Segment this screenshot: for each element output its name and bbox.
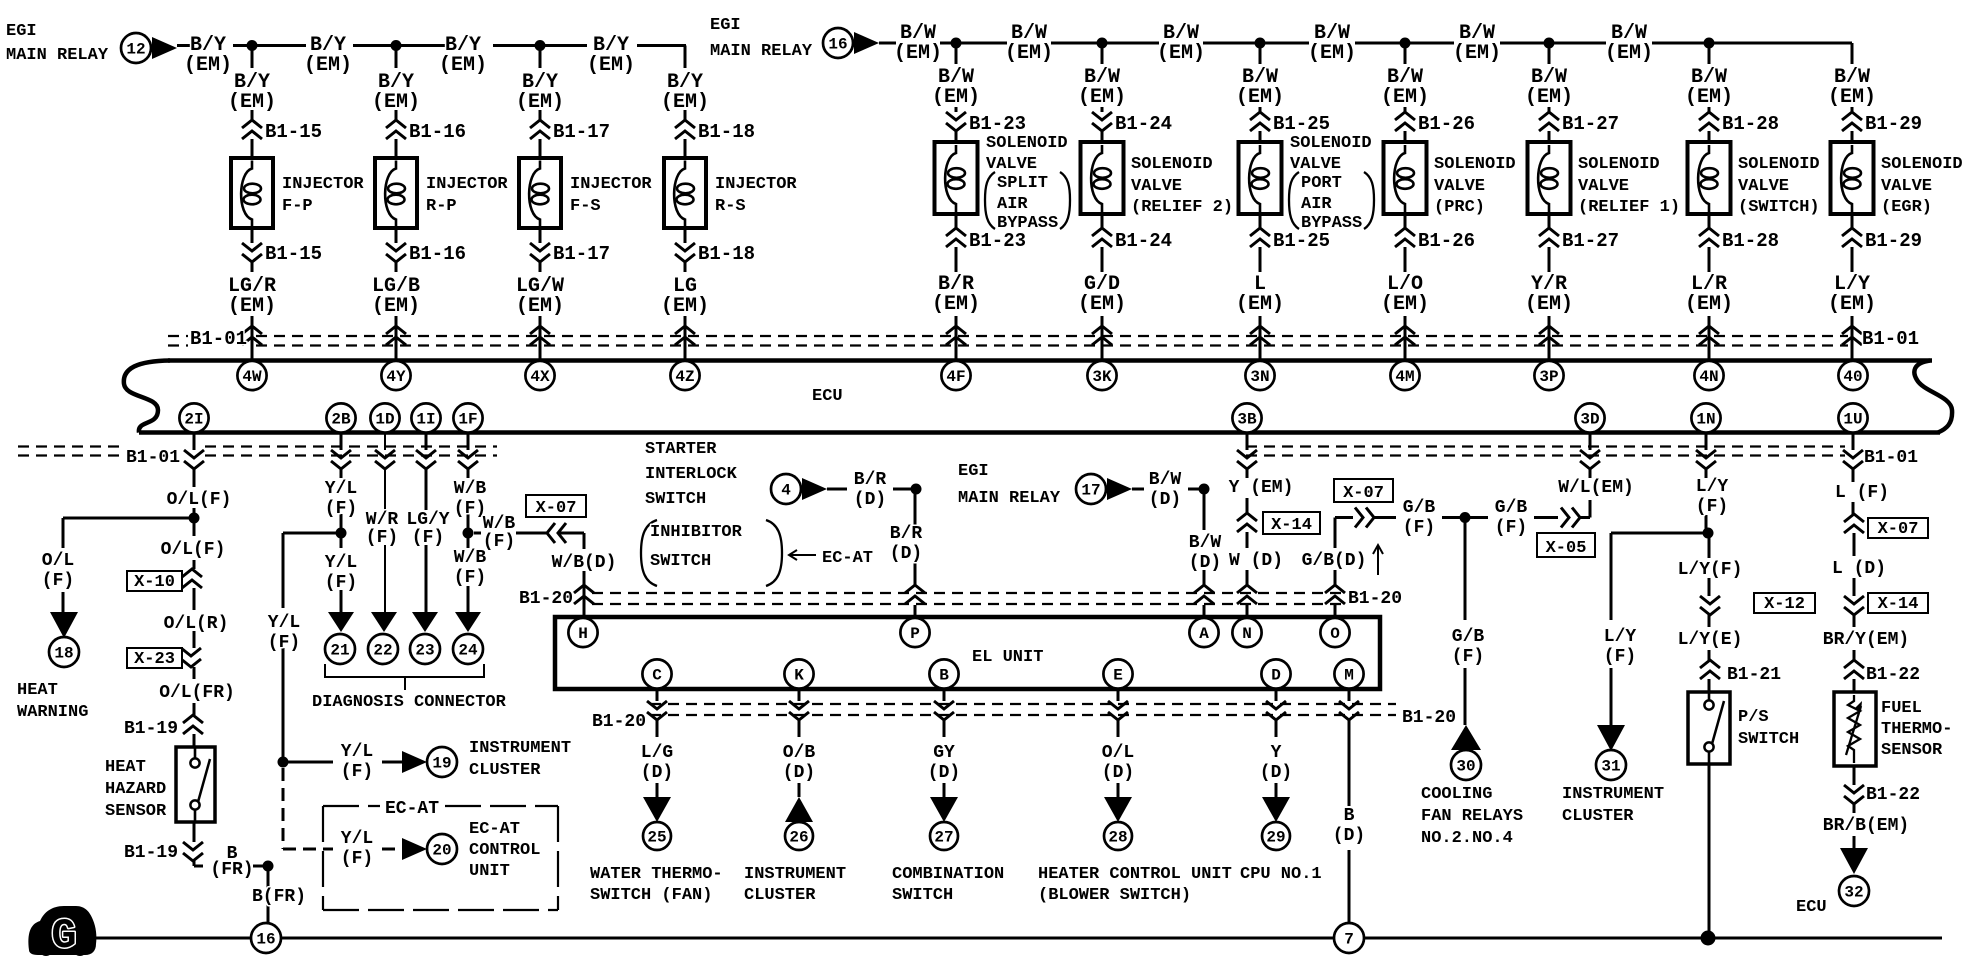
svg-text:B1-20: B1-20 <box>519 589 573 609</box>
label B/Y (EM) F-S <box>516 71 564 114</box>
wire BR/B (EM) <box>1853 766 1856 848</box>
node junction B/W 4 <box>1400 38 1411 49</box>
node junction ground P/S <box>1701 931 1716 946</box>
label B/W (EM) bus 3 <box>1308 22 1356 65</box>
arrow diagnosis 24 <box>455 612 481 632</box>
wire B/R from 4 <box>827 488 916 491</box>
svg-text:D: D <box>1271 667 1281 685</box>
svg-text:4: 4 <box>781 482 791 500</box>
connector X-23 <box>181 648 201 667</box>
ECU pin 4M <box>1390 361 1419 390</box>
svg-text:SPLIT: SPLIT <box>997 174 1048 193</box>
label W/B (F) lower <box>454 548 487 588</box>
svg-text:O/B: O/B <box>783 743 816 763</box>
wire B/R down to P <box>914 489 917 617</box>
label L (EM) <box>1236 273 1284 316</box>
arrow 28 <box>1104 797 1132 822</box>
wire Y/L from ECU 2B <box>340 433 343 534</box>
svg-text:16: 16 <box>828 36 847 54</box>
connector X-10 <box>182 569 202 588</box>
solenoid valve B1-23 <box>935 142 978 214</box>
wire G/D (EM) to ECU <box>1101 214 1104 361</box>
svg-text:H: H <box>578 625 588 643</box>
wire Y/L to diagnosis 21 <box>340 533 343 612</box>
svg-text:P: P <box>910 625 920 643</box>
svg-text:(F): (F) <box>1604 647 1636 667</box>
svg-text:MAIN RELAY: MAIN RELAY <box>6 46 109 65</box>
svg-text:(EM): (EM) <box>661 91 709 114</box>
svg-text:SENSOR: SENSOR <box>1881 741 1943 760</box>
wire B/W drop solenoid B1-27 <box>1548 43 1551 143</box>
injector F-P <box>231 158 273 228</box>
wire B/W down to A <box>1203 489 1206 617</box>
svg-text:X-14: X-14 <box>1271 516 1312 535</box>
wire ground bus <box>96 937 1942 940</box>
connector X-07 chevron <box>547 523 566 543</box>
svg-text:W/R: W/R <box>366 510 399 530</box>
EC-AT pointer <box>789 549 873 568</box>
label B/W (D) lower <box>1189 533 1222 573</box>
label component 26 <box>744 865 846 905</box>
connector B1-01 at 1I <box>416 450 436 469</box>
svg-text:(EM): (EM) <box>516 295 564 318</box>
svg-text:(PRC): (PRC) <box>1434 198 1485 217</box>
arrow from connector 16 <box>854 32 879 54</box>
heat hazard sensor <box>176 747 215 822</box>
svg-text:M: M <box>1344 667 1354 685</box>
svg-text:Y/L: Y/L <box>341 742 373 762</box>
connector B1-01 at 1D <box>375 450 395 469</box>
wire W (D) to N <box>1246 532 1249 617</box>
node junction O/L <box>189 513 200 524</box>
svg-text:X-05: X-05 <box>1546 539 1587 558</box>
injector R-S <box>664 158 706 228</box>
svg-text:STARTER: STARTER <box>645 440 717 459</box>
connector X-14 box <box>1263 512 1320 535</box>
wire L (D) <box>1853 533 1856 596</box>
svg-text:B1-16: B1-16 <box>409 121 466 143</box>
svg-text:(D): (D) <box>1149 490 1181 510</box>
label L/G (D) <box>641 743 673 783</box>
svg-text:HEAT: HEAT <box>17 681 58 700</box>
label B/Y (EM) R-P <box>372 71 420 114</box>
label B/R (EM) <box>932 273 980 316</box>
wire Y/L branch left <box>283 533 341 762</box>
label Y/L (F) 19 <box>341 742 373 782</box>
svg-text:SOLENOID: SOLENOID <box>1578 155 1660 174</box>
svg-text:29: 29 <box>1266 829 1285 847</box>
connector X-05 chevron <box>1561 508 1580 528</box>
svg-text:(EM): (EM) <box>1078 86 1126 109</box>
svg-text:(F): (F) <box>1452 647 1484 667</box>
svg-text:VALVE: VALVE <box>1290 155 1341 174</box>
svg-text:(EM): (EM) <box>1381 293 1429 316</box>
svg-text:VALVE: VALVE <box>986 155 1037 174</box>
svg-text:31: 31 <box>1601 758 1620 776</box>
svg-text:(EM): (EM) <box>932 293 980 316</box>
svg-text:4X: 4X <box>530 368 550 386</box>
connector B1-17 upper <box>530 120 550 139</box>
wire G/B to cooling fan relays <box>1464 518 1467 726</box>
connector line B1-20 dashed lower <box>650 704 1396 715</box>
svg-text:G/B: G/B <box>1403 498 1436 518</box>
ECU pin 2I <box>179 403 208 432</box>
svg-text:L/Y: L/Y <box>1696 477 1729 497</box>
svg-text:3P: 3P <box>1539 368 1558 386</box>
wire B/Y drop injector F-S <box>539 46 542 160</box>
connector 31 <box>1596 750 1626 780</box>
arrow EC-AT control unit 20 <box>402 838 427 860</box>
svg-text:B1-27: B1-27 <box>1562 230 1619 252</box>
label B (D) <box>1333 806 1365 846</box>
svg-text:N: N <box>1242 625 1252 643</box>
connector 25 <box>643 822 671 850</box>
connector B1-01 at 1U <box>1843 450 1863 469</box>
ECU pin 4Z <box>670 361 699 390</box>
svg-text:L/Y(F): L/Y(F) <box>1678 560 1743 580</box>
svg-text:B1-25: B1-25 <box>1273 113 1330 135</box>
svg-text:SOLENOID: SOLENOID <box>1131 155 1213 174</box>
label B/R (D) lower <box>890 524 923 564</box>
svg-text:Y/L: Y/L <box>325 479 357 499</box>
svg-text:L (F): L (F) <box>1835 483 1889 503</box>
label L/Y (EM) <box>1828 273 1876 316</box>
label LG/R (EM) <box>228 275 276 318</box>
EL unit pin O <box>1320 618 1349 647</box>
svg-text:W/B: W/B <box>454 479 487 499</box>
svg-text:25: 25 <box>647 829 666 847</box>
svg-text:X-10: X-10 <box>134 573 175 592</box>
svg-text:CPU NO.1: CPU NO.1 <box>1240 865 1322 884</box>
svg-text:B1-20: B1-20 <box>1348 589 1402 609</box>
connector B1-29 lower <box>1842 228 1862 247</box>
svg-text:L/G: L/G <box>641 743 673 763</box>
ECU pin 1N <box>1691 403 1720 432</box>
svg-text:W/B(D): W/B(D) <box>552 553 617 573</box>
wire O/L branch to heat warning <box>63 518 194 612</box>
label B/W (D) <box>1149 470 1182 510</box>
svg-text:Y/L: Y/L <box>325 553 357 573</box>
connector B1-25 upper <box>1250 112 1270 131</box>
svg-text:(F): (F) <box>1495 518 1527 538</box>
connector B1-01 crossing R-P <box>386 326 406 345</box>
injector R-P <box>375 158 417 228</box>
svg-text:(EM): (EM) <box>1236 86 1284 109</box>
ECU pin 3D <box>1575 403 1604 432</box>
svg-text:O/L: O/L <box>42 551 74 571</box>
svg-text:Y (EM): Y (EM) <box>1229 478 1294 498</box>
svg-text:B1-22: B1-22 <box>1866 665 1920 685</box>
ECU pin 3K <box>1087 361 1116 390</box>
label B/Y (EM) bus 4 <box>587 34 635 77</box>
svg-text:L (D): L (D) <box>1832 559 1886 579</box>
connector B1-01 crossing B1-27 <box>1539 326 1559 345</box>
diagnosis connector bracket <box>325 664 484 690</box>
label STARTER INTERLOCK SWITCH <box>645 440 738 509</box>
svg-text:3B: 3B <box>1237 411 1257 429</box>
wire B (D) from EL unit M <box>1348 689 1351 923</box>
svg-text:B1-15: B1-15 <box>265 243 322 265</box>
connector B1-01 at 2B <box>331 450 351 469</box>
svg-text:SWITCH: SWITCH <box>645 490 706 509</box>
EL unit pin K <box>784 659 813 688</box>
label B/W (EM) B1-27 <box>1525 66 1573 109</box>
svg-text:B1-20: B1-20 <box>592 712 646 732</box>
connector B1-01 crossing B1-29 <box>1842 326 1862 345</box>
svg-text:ECU: ECU <box>812 387 843 406</box>
label LG/W (EM) <box>516 275 564 318</box>
svg-text:(D): (D) <box>1189 553 1221 573</box>
connector B1-20 at 27 <box>934 701 954 720</box>
svg-text:O: O <box>1330 625 1340 643</box>
svg-text:30: 30 <box>1456 758 1475 776</box>
label W/B (F) 1F <box>454 479 487 519</box>
svg-text:INJECTOR: INJECTOR <box>426 175 508 194</box>
svg-text:EC-AT: EC-AT <box>469 820 520 839</box>
wire L (EM) to ECU <box>1259 214 1262 361</box>
svg-text:B: B <box>939 667 949 685</box>
svg-text:B(FR): B(FR) <box>252 887 306 907</box>
label G/B (F) 1 <box>1403 498 1436 538</box>
svg-text:K: K <box>794 667 804 685</box>
connector 27 <box>930 822 958 850</box>
svg-text:(EM): (EM) <box>372 91 420 114</box>
arrow up B1-20 reference <box>1373 545 1383 575</box>
svg-text:(F): (F) <box>341 762 373 782</box>
svg-text:2I: 2I <box>184 411 203 429</box>
svg-text:(EM): (EM) <box>1525 293 1573 316</box>
ECU pin 3B <box>1232 403 1261 432</box>
svg-text:B: B <box>1344 806 1355 826</box>
svg-text:SOLENOID: SOLENOID <box>1290 134 1372 153</box>
svg-text:WATER THERMO-: WATER THERMO- <box>590 865 723 884</box>
svg-text:(EM): (EM) <box>587 54 635 77</box>
wire LG/W (EM) to ECU <box>539 228 542 361</box>
svg-text:P/S: P/S <box>1738 708 1769 727</box>
wire L from ECU 1U <box>1852 433 1855 515</box>
svg-text:23: 23 <box>415 642 434 660</box>
svg-text:SOLENOID: SOLENOID <box>1738 155 1820 174</box>
svg-text:X-07: X-07 <box>1878 520 1919 539</box>
svg-text:(D): (D) <box>1333 826 1365 846</box>
wire O/L (D) from EL unit <box>1117 689 1120 797</box>
EL unit pin D <box>1261 659 1290 688</box>
label Y/R (EM) <box>1525 273 1573 316</box>
svg-text:O/L(FR): O/L(FR) <box>159 683 235 703</box>
ECU pin 4W <box>237 361 266 390</box>
svg-text:(F): (F) <box>325 499 357 519</box>
label L/O (EM) <box>1381 273 1429 316</box>
wire B/Y drop injector R-P <box>395 46 398 160</box>
svg-text:(EM): (EM) <box>372 295 420 318</box>
label B/Y (EM) bus 2 <box>304 34 352 77</box>
svg-text:CLUSTER: CLUSTER <box>744 886 816 905</box>
node junction B(FR) <box>263 861 274 872</box>
svg-text:(EM): (EM) <box>1381 86 1429 109</box>
svg-text:2B: 2B <box>331 411 351 429</box>
svg-text:BR/Y(EM): BR/Y(EM) <box>1823 630 1909 650</box>
svg-text:1I: 1I <box>416 411 435 429</box>
ECU pin 3P <box>1534 361 1563 390</box>
svg-text:B1-26: B1-26 <box>1418 113 1475 135</box>
label Y (D) <box>1260 743 1292 783</box>
svg-text:CONTROL: CONTROL <box>469 841 540 860</box>
svg-text:SENSOR: SENSOR <box>105 802 167 821</box>
svg-text:EL UNIT: EL UNIT <box>972 648 1043 667</box>
connector B1-01 at 1N <box>1696 450 1716 469</box>
solenoid valve B1-25 <box>1239 142 1282 214</box>
label component 27 <box>892 865 1004 905</box>
svg-text:HEAT: HEAT <box>105 758 146 777</box>
connector 32 <box>1839 876 1869 906</box>
label GY (D) <box>928 743 960 783</box>
svg-text:(F): (F) <box>42 571 74 591</box>
svg-text:(F): (F) <box>268 633 300 653</box>
connector B1-01 at 3D <box>1580 450 1600 469</box>
solenoid valve B1-24 <box>1081 142 1124 214</box>
connector 7 ground <box>1334 923 1364 953</box>
svg-text:B1-25: B1-25 <box>1273 230 1330 252</box>
svg-text:24: 24 <box>458 642 478 660</box>
label B/W (EM) bus 4 <box>1453 22 1501 65</box>
svg-text:F-P: F-P <box>282 197 313 216</box>
svg-text:INSTRUMENT: INSTRUMENT <box>744 865 846 884</box>
svg-text:(EM): (EM) <box>228 91 276 114</box>
svg-text:E: E <box>1113 667 1123 685</box>
EL unit pin M <box>1334 659 1363 688</box>
svg-text:B1-28: B1-28 <box>1722 230 1779 252</box>
svg-text:VALVE: VALVE <box>1131 177 1182 196</box>
wire P/S to ground bus <box>1708 764 1711 938</box>
label LG/B (EM) <box>372 275 420 318</box>
wire L/Y branch to instrument cluster <box>1611 533 1708 725</box>
svg-text:ECU: ECU <box>1796 898 1827 917</box>
connector B1-01 crossing B1-23 <box>946 326 966 345</box>
ECU pin 4X <box>525 361 554 390</box>
wire B/W drop solenoid B1-25 <box>1259 43 1262 143</box>
svg-text:B1-18: B1-18 <box>698 121 755 143</box>
svg-text:R-P: R-P <box>426 197 457 216</box>
svg-text:(D): (D) <box>890 544 922 564</box>
connector B1-22 lower <box>1844 785 1864 804</box>
connector B1-27 upper <box>1539 112 1559 131</box>
svg-text:EC-AT: EC-AT <box>822 549 873 568</box>
node junction G/B <box>1460 512 1471 523</box>
svg-text:B1-01: B1-01 <box>126 448 180 468</box>
label B (FR) <box>210 844 253 880</box>
svg-text:26: 26 <box>789 829 808 847</box>
ECU pin 1F <box>453 403 482 432</box>
connector B1-19 lower <box>183 842 203 861</box>
wire LG/B (EM) to ECU <box>395 228 398 361</box>
label O/L (D) <box>1102 743 1134 783</box>
svg-text:(EM): (EM) <box>1685 293 1733 316</box>
connector 21 <box>325 634 355 664</box>
connector 16 (EGI main relay) <box>823 28 853 58</box>
connector 4 starter interlock <box>771 474 801 504</box>
svg-text:(F): (F) <box>454 568 486 588</box>
node junction B/Y 3 <box>535 40 546 51</box>
svg-text:Y/L: Y/L <box>268 613 300 633</box>
svg-text:NO.2.NO.4: NO.2.NO.4 <box>1421 829 1513 848</box>
label B/Y (EM) bus 1 <box>184 34 232 77</box>
connector B1-20 at P <box>905 585 925 604</box>
wire B/W drop solenoid B1-24 <box>1101 43 1104 143</box>
svg-text:4W: 4W <box>242 368 262 386</box>
connector B1-29 upper <box>1842 112 1862 131</box>
wire W/B from ECU 1F <box>467 433 470 613</box>
svg-text:1U: 1U <box>1843 411 1862 429</box>
arrow instrument cluster 31 <box>1597 725 1625 751</box>
svg-text:(SWITCH): (SWITCH) <box>1738 198 1820 217</box>
wire B/R (EM) to ECU <box>955 214 958 361</box>
wire BR/Y (EM) <box>1853 615 1856 692</box>
svg-text:CLUSTER: CLUSTER <box>469 761 541 780</box>
svg-text:B1-29: B1-29 <box>1865 113 1922 135</box>
EC-AT dashed box <box>323 806 558 910</box>
connector B1-20 at H <box>574 585 594 604</box>
connector B1-01 crossing R-S <box>675 326 695 345</box>
svg-text:B1-26: B1-26 <box>1418 230 1475 252</box>
svg-text:DIAGNOSIS CONNECTOR: DIAGNOSIS CONNECTOR <box>312 693 507 712</box>
arrow to heat warning <box>50 612 78 638</box>
svg-text:X-14: X-14 <box>1878 595 1919 614</box>
svg-text:B1-20: B1-20 <box>1402 708 1456 728</box>
EL unit pin N <box>1232 618 1261 647</box>
label L/Y (F) 31 <box>1604 627 1637 667</box>
svg-text:THERMO-: THERMO- <box>1881 720 1952 739</box>
wire Y (EM) from ECU 3B <box>1246 433 1249 514</box>
EL unit pin A <box>1189 618 1218 647</box>
svg-text:B1-24: B1-24 <box>1115 230 1172 252</box>
label component 29 <box>1240 865 1322 884</box>
svg-text:(EM): (EM) <box>1605 42 1653 65</box>
svg-text:INJECTOR: INJECTOR <box>715 175 797 194</box>
svg-text:1F: 1F <box>458 411 477 429</box>
connector 16 ground <box>251 923 281 953</box>
svg-text:(EM): (EM) <box>184 54 232 77</box>
svg-text:X-07: X-07 <box>1343 484 1384 503</box>
svg-text:(D): (D) <box>928 763 960 783</box>
svg-text:B/W: B/W <box>1149 470 1182 490</box>
label G/B (F) 2 <box>1495 498 1528 538</box>
connector B1-18 lower <box>675 243 695 262</box>
label B/W (EM) bus 2 <box>1157 22 1205 65</box>
label COOLING FAN RELAYS NO.2.NO.4 <box>1421 785 1523 848</box>
connector B1-18 upper <box>675 120 695 139</box>
svg-text:INJECTOR: INJECTOR <box>282 175 364 194</box>
svg-text:3N: 3N <box>1250 368 1269 386</box>
wire B (FR) to ground bus <box>194 822 268 923</box>
svg-text:A: A <box>1199 625 1209 643</box>
svg-text:40: 40 <box>1843 368 1862 386</box>
wire LG (EM) to ECU <box>684 228 687 361</box>
connector B1-01 crossing B1-24 <box>1092 326 1112 345</box>
EL unit pin H <box>568 618 597 647</box>
connector line B1-01 bottom dashed <box>18 447 1845 456</box>
arrow to ECU 32 <box>1840 848 1868 874</box>
svg-text:X-23: X-23 <box>134 650 175 669</box>
svg-text:16: 16 <box>256 931 275 949</box>
wire L/O (EM) to ECU <box>1404 214 1407 361</box>
connector B1-01 at 1F <box>458 450 478 469</box>
svg-text:EGI: EGI <box>710 16 741 35</box>
svg-text:B1-28: B1-28 <box>1722 113 1779 135</box>
connector B1-20 at 28 <box>1108 701 1128 720</box>
label L/Y (F) 1N <box>1696 477 1729 517</box>
arrow diagnosis 22 <box>371 612 397 632</box>
svg-text:B1-19: B1-19 <box>124 719 178 739</box>
